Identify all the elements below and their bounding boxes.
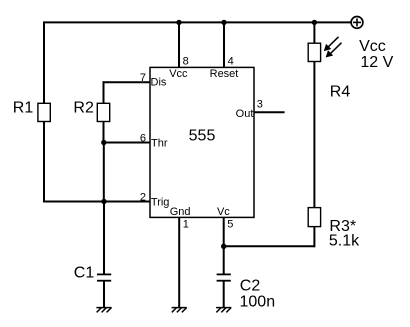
svg-text:7: 7 <box>140 72 146 84</box>
resistor R2 <box>97 103 109 121</box>
svg-text:4: 4 <box>228 56 234 68</box>
svg-text:2: 2 <box>140 192 146 204</box>
svg-text:5.1k: 5.1k <box>329 233 360 250</box>
ground (C2) <box>216 308 231 313</box>
svg-text:Reset: Reset <box>210 68 239 80</box>
svg-text:R2: R2 <box>73 100 94 117</box>
wire left vertical lower (R1 to Trig wire) <box>43 122 45 203</box>
LDR arrow 2 <box>326 43 341 57</box>
wire R3 bottom stub <box>313 227 315 248</box>
wire pin 5 Vc vertical <box>223 217 225 274</box>
wire pin 4 vertical <box>223 22 225 67</box>
wire R3 bottom horizontal to C2 junction <box>224 245 315 247</box>
wire right column top (rail to R4) <box>313 21 315 43</box>
svg-text:Gnd: Gnd <box>170 206 191 218</box>
svg-text:5: 5 <box>227 219 233 231</box>
svg-text:Thr: Thr <box>151 138 168 150</box>
svg-text:R4: R4 <box>330 84 351 101</box>
svg-text:Dis: Dis <box>151 77 167 89</box>
node junction Thr <box>101 140 106 145</box>
ground (C1) <box>96 308 111 313</box>
svg-text:3: 3 <box>257 99 263 111</box>
svg-text:1: 1 <box>183 219 189 231</box>
svg-text:8: 8 <box>183 56 189 68</box>
svg-text:6: 6 <box>140 133 146 145</box>
svg-text:Vcc: Vcc <box>359 38 386 55</box>
wire pin 8 vertical <box>178 22 180 67</box>
capacitor C2 <box>217 274 231 280</box>
node junction top pin4 <box>221 20 226 25</box>
wire Trig junction down to C1 <box>103 202 105 275</box>
wire Dis horizontal <box>103 81 151 83</box>
ground (pin 1) <box>172 308 187 313</box>
op-amp U1 555 body box <box>150 67 254 217</box>
wire C2 to ground <box>223 281 225 308</box>
node junction Trig <box>101 199 106 204</box>
wire left vertical upper (top rail to R1) <box>43 21 45 103</box>
wire pin 3 Out stub <box>254 111 285 113</box>
node junction Vc/R3 <box>221 244 226 249</box>
resistor R4 (LDR) <box>308 43 320 61</box>
resistor R1 <box>38 103 50 121</box>
svg-text:R1: R1 <box>13 100 34 117</box>
wire C1 to ground <box>103 281 105 308</box>
wire Trig horizontal <box>43 201 150 203</box>
capacitor C1 <box>97 274 111 280</box>
wire Thr horizontal <box>104 142 151 144</box>
svg-text:12 V: 12 V <box>360 54 393 71</box>
wire right column middle (R4 to R3) <box>313 62 315 208</box>
svg-text:C1: C1 <box>74 265 95 282</box>
wire Thr junction to Trig junction <box>103 143 105 202</box>
svg-text:Vc: Vc <box>217 206 230 218</box>
wire pin 1 Gnd vertical <box>178 217 180 307</box>
svg-text:Vcc: Vcc <box>169 68 188 80</box>
svg-text:555: 555 <box>189 128 216 145</box>
svg-text:Out: Out <box>236 108 254 120</box>
node junction top right column <box>312 20 317 25</box>
Vcc terminal circle-plus <box>351 17 363 29</box>
svg-text:Trig: Trig <box>151 197 170 209</box>
wire R2 top stub <box>103 81 105 103</box>
svg-text:100n: 100n <box>240 293 276 310</box>
svg-text:C2: C2 <box>240 278 261 295</box>
wire top rail <box>44 21 351 23</box>
node junction top pin8 <box>176 20 181 25</box>
wire R2 bottom to Thr junction <box>103 122 105 143</box>
resistor R3 <box>308 208 320 227</box>
LDR arrow 1 <box>324 37 338 51</box>
